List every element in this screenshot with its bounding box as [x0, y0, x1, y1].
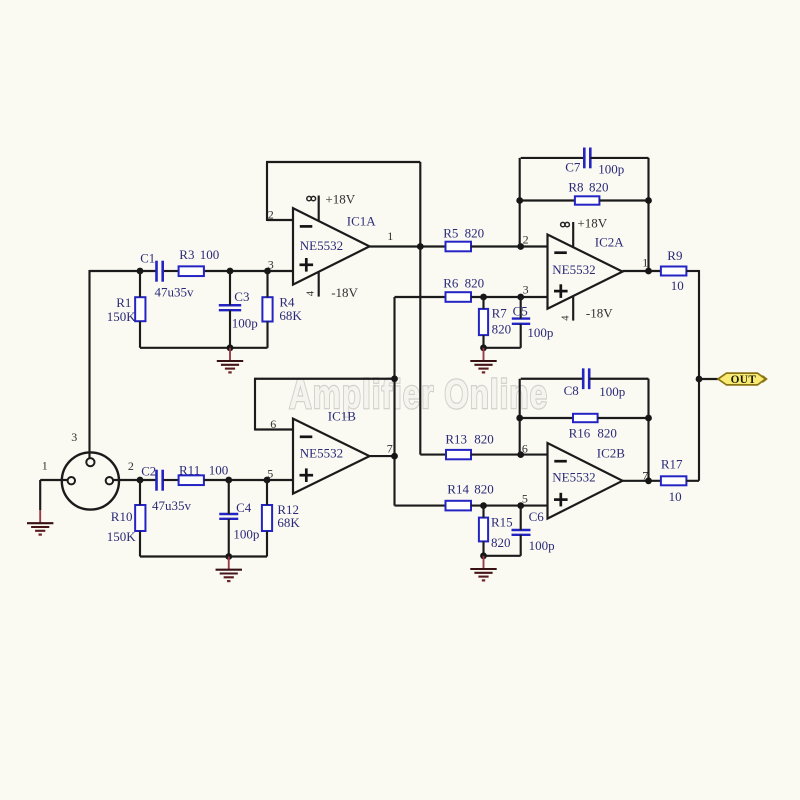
svg-text:3: 3	[523, 283, 529, 297]
svg-text:R11: R11	[179, 463, 200, 478]
op-amp IC2A non-inverting input marker	[554, 290, 568, 293]
wire (IC1B out bus)	[393, 297, 395, 506]
wire (R16 row right)	[598, 417, 649, 419]
wire (IC2A feedback right)	[647, 158, 649, 271]
svg-text:-18V: -18V	[586, 306, 613, 321]
node: top channel ground junction	[227, 344, 234, 351]
ground	[483, 556, 485, 569]
resistor R10	[135, 505, 145, 531]
svg-text:R14: R14	[447, 482, 469, 497]
capacitor C7	[583, 148, 586, 169]
node: R8 left	[516, 197, 523, 204]
node: IC1B output	[391, 453, 398, 460]
wire	[90, 270, 157, 272]
wire (R8 row left)	[521, 199, 575, 201]
wire	[204, 479, 293, 481]
svg-text:100p: 100p	[233, 527, 259, 542]
svg-text:820: 820	[491, 535, 511, 550]
svg-text:820: 820	[474, 482, 494, 497]
svg-text:1: 1	[42, 458, 48, 472]
svg-text:3: 3	[71, 430, 77, 444]
wire	[204, 270, 293, 272]
wire	[163, 479, 178, 481]
svg-text:R16: R16	[569, 425, 591, 440]
svg-text:+18V: +18V	[325, 191, 355, 206]
XLR pin 2 contact	[106, 477, 113, 484]
op-amp IC1A non-inverting input marker	[300, 263, 314, 266]
svg-text:R5: R5	[443, 225, 458, 240]
wire	[139, 321, 141, 348]
wire	[471, 296, 548, 298]
capacitor C6	[512, 529, 531, 531]
resistor R4	[262, 297, 272, 321]
svg-text:820: 820	[589, 180, 609, 195]
wire (XLR pin1)	[40, 479, 67, 481]
wire (IC2A output)	[623, 270, 661, 272]
svg-text:10: 10	[669, 489, 682, 504]
ground	[229, 348, 231, 361]
op-amp IC1B inverting input marker	[300, 435, 313, 438]
node: IC2B output	[645, 477, 652, 484]
wire	[266, 271, 268, 297]
wire (IC1A feedback right)	[419, 162, 421, 247]
svg-text:6: 6	[522, 441, 528, 455]
svg-text:R8: R8	[568, 180, 583, 195]
wire (pin 6)	[255, 428, 293, 430]
svg-text:10: 10	[671, 278, 684, 293]
svg-text:820: 820	[465, 276, 485, 291]
svg-text:IC1A: IC1A	[347, 214, 377, 229]
resistor R5	[446, 242, 472, 252]
svg-text:R4: R4	[279, 294, 295, 309]
resistor R13	[446, 450, 471, 459]
wire	[520, 506, 522, 530]
wire	[266, 322, 268, 348]
wire	[266, 480, 268, 505]
svg-text:4: 4	[306, 290, 317, 296]
node: C6 top / IC2B pin5	[517, 502, 524, 509]
node: C5 top / IC2A pin3	[517, 294, 524, 301]
op-amp IC2A	[548, 235, 623, 309]
node: R11/C4 junction	[225, 477, 232, 484]
svg-text:R10: R10	[111, 509, 133, 524]
svg-text:100p: 100p	[599, 384, 625, 399]
wire	[482, 335, 484, 348]
svg-text:820: 820	[492, 322, 512, 337]
pin 4 power pin (IC2A)	[572, 297, 574, 321]
svg-text:R9: R9	[667, 248, 682, 263]
op-amp IC2B	[548, 443, 623, 519]
svg-text:68K: 68K	[277, 515, 300, 530]
wire	[520, 297, 522, 319]
pin 8 power pin (IC2A)	[572, 222, 574, 248]
wire	[482, 541, 484, 555]
node: C1/R1 junction	[137, 268, 144, 275]
wire (C7 row left)	[521, 157, 585, 159]
resistor R9	[661, 267, 687, 276]
wire	[163, 270, 178, 272]
wire	[140, 347, 268, 349]
wire (IC1B output)	[370, 455, 395, 457]
svg-text:150K: 150K	[107, 529, 137, 544]
svg-text:C2: C2	[141, 465, 156, 479]
svg-text:820: 820	[474, 431, 494, 446]
wire	[482, 297, 484, 309]
node: IC1A pin3 / R4 junction	[264, 268, 271, 275]
pin 8 label (rotated 8)	[307, 196, 311, 200]
svg-text:C5: C5	[513, 303, 528, 318]
svg-text:R3: R3	[179, 247, 194, 262]
resistor R1	[135, 297, 145, 321]
wire	[229, 310, 231, 348]
wire	[88, 270, 90, 458]
XLR pin 3 contact	[86, 458, 94, 466]
wire	[686, 270, 699, 272]
svg-text:C6: C6	[529, 509, 545, 524]
svg-text:6: 6	[270, 417, 276, 431]
wire (to OUT port)	[699, 378, 718, 380]
wire (output bus down)	[698, 270, 700, 481]
node: R7 top	[480, 294, 487, 301]
wire	[520, 324, 522, 348]
wire (IC2A feedback left)	[519, 158, 521, 247]
wire	[229, 271, 231, 305]
svg-text:100p: 100p	[529, 538, 555, 553]
svg-text:150K: 150K	[107, 309, 137, 324]
svg-text:2: 2	[523, 232, 529, 246]
capacitor C2	[155, 470, 158, 491]
wire	[228, 480, 230, 514]
resistor R11	[179, 475, 204, 485]
op-amp IC1B	[293, 419, 370, 494]
ground	[228, 557, 230, 570]
wire	[471, 505, 548, 507]
wire (IC1B feedback left)	[254, 379, 256, 431]
svg-text:C3: C3	[234, 289, 249, 304]
svg-text:R15: R15	[491, 515, 513, 530]
svg-text:NE5532: NE5532	[552, 262, 595, 277]
svg-text:IC1B: IC1B	[328, 408, 357, 423]
wire (IC1A feedback left)	[266, 162, 268, 221]
svg-text:1: 1	[642, 255, 648, 269]
wire	[139, 531, 141, 556]
wire (IC2B output)	[623, 480, 661, 482]
wire (IC1A out bus down)	[419, 247, 421, 455]
resistor R3	[179, 266, 204, 276]
wire	[228, 519, 230, 557]
svg-text:C4: C4	[236, 500, 252, 515]
node: IC1B feedback	[391, 375, 398, 382]
pin 4 power pin	[318, 273, 320, 297]
wire (R8 row right)	[599, 199, 648, 201]
svg-text:R6: R6	[443, 276, 459, 291]
capacitor C4	[219, 513, 238, 515]
wire (R16 row left)	[521, 417, 573, 419]
node: R7/C5 ground junction	[480, 344, 487, 351]
svg-text:R7: R7	[492, 306, 508, 321]
wire	[482, 506, 484, 518]
svg-text:47u35v: 47u35v	[152, 498, 192, 513]
resistor R6	[446, 292, 472, 302]
svg-text:R17: R17	[661, 456, 683, 471]
wire	[267, 219, 293, 221]
svg-text:820: 820	[465, 225, 485, 240]
resistor R15	[479, 518, 488, 542]
svg-text:C7: C7	[565, 159, 581, 174]
wire (C8 row right)	[589, 378, 648, 380]
wire (IC2B feedback left)	[519, 379, 521, 455]
wire (IC1B feedback top)	[254, 378, 395, 380]
wire	[520, 535, 522, 556]
XLR connector J1 body	[62, 452, 119, 509]
svg-text:4: 4	[560, 315, 571, 321]
node: IC1B pin5 / R12 junction	[264, 477, 271, 484]
svg-text:OUT: OUT	[731, 374, 757, 386]
svg-text:100p: 100p	[598, 162, 624, 177]
resistor R8	[575, 196, 600, 204]
resistor R16	[573, 414, 598, 422]
svg-text:7: 7	[387, 441, 393, 455]
capacitor C1	[155, 261, 158, 282]
svg-text:NE5532: NE5532	[552, 469, 595, 484]
wire (C8 row left)	[521, 378, 584, 380]
wire (IC2B feedback right)	[647, 379, 649, 481]
node: IC1A output	[417, 243, 424, 250]
svg-text:C8: C8	[564, 383, 579, 398]
svg-text:820: 820	[597, 425, 617, 440]
wire	[686, 480, 699, 482]
svg-text:100: 100	[200, 247, 220, 262]
resistor R17	[661, 476, 687, 485]
capacitor C5	[512, 317, 530, 319]
svg-text:2: 2	[128, 459, 134, 473]
svg-text:R13: R13	[445, 431, 467, 446]
node: R15 top	[480, 502, 487, 509]
wire (C7 row right)	[590, 157, 648, 159]
node: R16 left	[516, 415, 523, 422]
wire	[484, 555, 521, 557]
node: bottom channel ground junction	[225, 553, 232, 560]
wire	[140, 555, 267, 557]
wire	[266, 531, 268, 556]
svg-text:47u35v: 47u35v	[155, 284, 195, 299]
wire	[139, 271, 141, 297]
op-amp IC2A inverting input marker	[554, 251, 567, 254]
op-amp IC1B non-inverting input marker	[300, 474, 314, 477]
ground	[483, 348, 485, 361]
resistor R12	[262, 505, 272, 531]
svg-text:NE5532: NE5532	[300, 446, 343, 461]
node: R15/C6 ground junction	[480, 552, 487, 559]
svg-text:5: 5	[267, 466, 273, 480]
svg-text:C1: C1	[140, 252, 155, 266]
svg-text:NE5532: NE5532	[300, 238, 343, 253]
OUT port flag	[718, 373, 766, 385]
wire	[471, 245, 548, 247]
XLR pin 1 contact	[68, 477, 75, 484]
capacitor C3	[219, 304, 241, 306]
svg-text:IC2B: IC2B	[597, 446, 626, 461]
svg-text:68K: 68K	[279, 308, 302, 323]
wire	[139, 480, 141, 505]
node: IC2B pin6	[517, 451, 524, 458]
svg-text:100p: 100p	[232, 315, 258, 330]
svg-text:+18V: +18V	[577, 216, 607, 231]
wire (XLR pin2 to C2)	[113, 479, 156, 481]
node: R3/C3 junction	[227, 268, 234, 275]
op-amp IC1A	[293, 208, 370, 284]
op-amp IC1A inverting input marker	[300, 225, 313, 228]
pin 8 power pin	[318, 196, 320, 222]
node: R16 right	[645, 415, 652, 422]
resistor R7	[479, 309, 488, 335]
resistor R14	[446, 501, 472, 511]
capacitor C8	[582, 368, 585, 389]
wire	[395, 505, 446, 507]
svg-text:100p: 100p	[527, 325, 553, 340]
svg-text:IC2A: IC2A	[595, 234, 625, 249]
svg-text:5: 5	[522, 491, 528, 505]
svg-text:100: 100	[209, 463, 229, 478]
wire (IC1A output)	[370, 245, 446, 247]
node: IC2A pin2	[517, 243, 524, 250]
wire	[484, 347, 521, 349]
wire	[395, 296, 446, 298]
node: R8 right	[645, 197, 652, 204]
node: C2/R10 junction	[137, 477, 144, 484]
wire	[420, 454, 446, 456]
pin 8 label (rotated 8)	[561, 222, 565, 226]
node: OUT	[696, 376, 703, 383]
wire (IC1A feedback top)	[266, 161, 420, 163]
svg-text:2: 2	[268, 208, 274, 222]
svg-text:1: 1	[387, 229, 393, 243]
ground	[39, 510, 41, 523]
svg-text:-18V: -18V	[331, 285, 358, 300]
op-amp IC2B inverting input marker	[554, 460, 567, 463]
wire (XLR pin1 down)	[39, 480, 41, 510]
node: IC2A output	[645, 268, 652, 275]
svg-text:3: 3	[268, 257, 274, 271]
wire	[471, 454, 548, 456]
op-amp IC2B non-inverting input marker	[554, 498, 568, 501]
